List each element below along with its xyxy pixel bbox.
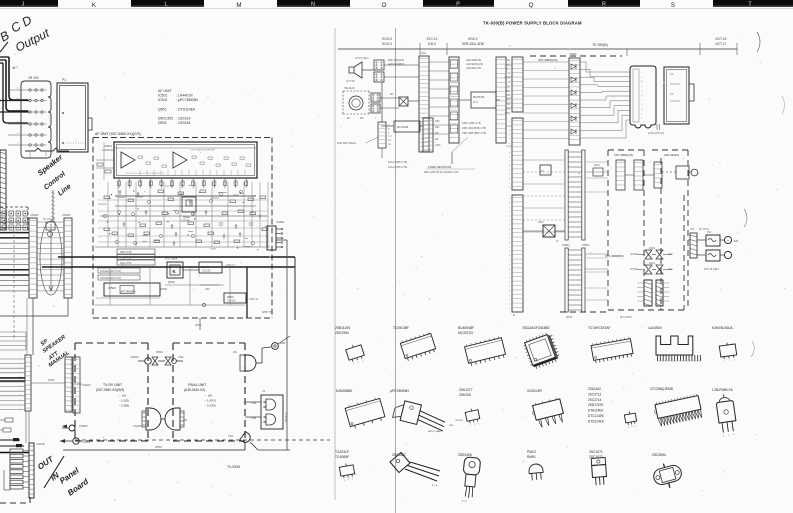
svg-text:W508: W508 [195, 324, 202, 327]
svg-text:C-2SC DATA CONVERTER: C-2SC DATA CONVERTER [190, 149, 215, 152]
svg-text:KRK-4DB (B55 4.75): KRK-4DB (B55 4.75) [462, 131, 486, 135]
svg-text:x: x [19, 408, 20, 410]
svg-text:TK-930(B) POWER SUPPLY BLOCK: TK-930(B) POWER SUPPLY BLOCK DIAGRAM [483, 21, 582, 26]
svg-text:1SS184: 1SS184 [181, 220, 190, 223]
svg-text:D604: D604 [538, 222, 544, 224]
svg-text:CN204: CN204 [133, 424, 142, 428]
svg-text:(A.B.C)(7S 1)A: (A.B.C)(7S 1)A [648, 132, 664, 135]
svg-text:CN608: CN608 [569, 53, 577, 56]
svg-text:KCH-5: KCH-5 [382, 37, 392, 41]
svg-text:x: x [19, 385, 20, 387]
svg-text:D503: D503 [158, 121, 166, 125]
svg-text:AF UNIT: AF UNIT [158, 89, 172, 93]
svg-text:CN4: CN4 [251, 416, 257, 420]
svg-text:FIXED RESISTOR: FIXED RESISTOR [428, 165, 451, 169]
svg-text:W502: W502 [48, 379, 55, 382]
svg-text:1SS193: 1SS193 [202, 270, 211, 273]
svg-text:CN202: CN202 [82, 383, 91, 387]
svg-text:x: x [19, 404, 20, 406]
svg-text:KRK-2 (B5 4.75): KRK-2 (B5 4.75) [462, 121, 481, 125]
svg-text:27C256QJEMD: 27C256QJEMD [650, 387, 674, 391]
svg-text:ALW SPK 100µA: ALW SPK 100µA [337, 142, 356, 145]
svg-text:MI2: MI2 [435, 132, 440, 135]
svg-text:TK-930M: TK-930M [227, 465, 240, 469]
svg-text:µPC78M08H: µPC78M08H [120, 290, 135, 294]
svg-text:RM91: RM91 [527, 455, 536, 459]
svg-text:(4.7): (4.7) [473, 101, 478, 104]
svg-text:JR 402: JR 402 [28, 76, 39, 80]
svg-text:NJM4556E: NJM4556E [336, 389, 353, 393]
svg-text:2SC2954: 2SC2954 [335, 331, 349, 335]
svg-text:DC CHJV: DC CHJV [699, 229, 709, 231]
svg-text:W504: W504 [156, 350, 164, 354]
svg-text:CN108: CN108 [36, 442, 45, 446]
svg-text:x: x [19, 367, 20, 369]
svg-text:CN304: CN304 [630, 269, 638, 271]
svg-text:Q502: Q502 [183, 215, 190, 219]
svg-text:B C E: B C E [432, 485, 438, 487]
svg-text:LA4491N: LA4491N [648, 326, 662, 330]
svg-text:W507 TK: W507 TK [262, 311, 272, 314]
svg-text:x: x [19, 390, 20, 392]
svg-text:X57-3960(A/3): X57-3960(A/3) [538, 58, 558, 62]
svg-text:x: x [19, 371, 20, 373]
svg-text:→ (A): → (A) [118, 394, 126, 398]
svg-text:(B.C) 8PIN: (B.C) 8PIN [620, 316, 632, 319]
svg-text:2SD1406: 2SD1406 [458, 453, 472, 457]
svg-text:TX-RX UNIT: TX-RX UNIT [103, 383, 122, 387]
svg-text:DS: DS [670, 73, 674, 76]
svg-text:KCT-17: KCT-17 [716, 42, 727, 46]
svg-text:TC4S69F: TC4S69F [335, 455, 349, 459]
svg-text:W503: W503 [155, 445, 162, 449]
svg-text:2SC2694: 2SC2694 [652, 453, 666, 457]
svg-text:KRK-2: KRK-2 [468, 37, 478, 41]
svg-text:KRK-3D4,-4DB: KRK-3D4,-4DB [462, 42, 484, 46]
svg-text:CN3: CN3 [251, 401, 257, 405]
svg-text:TC4S11F: TC4S11F [335, 450, 349, 454]
svg-text:IC502: IC502 [108, 286, 116, 290]
svg-text:2SD1767K: 2SD1767K [588, 403, 604, 407]
svg-text:2SK208: 2SK208 [459, 393, 471, 397]
svg-text:X57-3960(C/3): X57-3960(C/3) [614, 153, 633, 157]
svg-text:→1 (PG): →1 (PG) [204, 399, 216, 403]
svg-text:J1: J1 [262, 389, 265, 393]
svg-text:PR.95.M9: PR.95.M9 [473, 96, 485, 99]
svg-text:DTA114EK: DTA114EK [588, 409, 604, 413]
svg-text:KCT-5 ONLY: KCT-5 ONLY [355, 57, 369, 60]
svg-text:A40-9110-05: A40-9110-05 [466, 66, 481, 70]
svg-text:SB: SB [507, 85, 511, 88]
svg-text:CN1: CN1 [421, 52, 427, 55]
svg-text:DS: DS [670, 93, 674, 96]
svg-text:Q501: Q501 [168, 280, 175, 284]
svg-text:2SC1971: 2SC1971 [589, 450, 603, 454]
svg-text:D502: D502 [227, 295, 234, 299]
svg-text:CN2: CN2 [178, 355, 184, 359]
svg-text:W1: W1 [233, 350, 238, 354]
svg-text:W605: W605 [566, 316, 573, 319]
svg-text:(X57-3960-XX)(B/3): (X57-3960-XX)(B/3) [96, 388, 124, 392]
svg-text:: µPC78M08H: : µPC78M08H [176, 98, 199, 102]
svg-text:P: P [456, 2, 460, 8]
svg-text:SQL 0.5V: SQL 0.5V [120, 261, 132, 265]
svg-text:: 1SS193: : 1SS193 [176, 117, 190, 121]
svg-text:E: E [513, 313, 515, 317]
svg-text:A45-3440-0: A45-3440-0 [664, 153, 679, 157]
svg-text:LA4401N: LA4401N [102, 148, 113, 152]
svg-text:EC: EC [347, 117, 351, 120]
svg-text:CN505: CN505 [79, 424, 88, 428]
svg-text:x: x [19, 358, 20, 360]
svg-text:C456 .01: C456 .01 [249, 299, 259, 301]
svg-text:KTC-15 ONLY: KTC-15 ONLY [704, 268, 720, 271]
svg-text:1SS193: 1SS193 [227, 300, 236, 303]
svg-text:: LA4401N: : LA4401N [176, 94, 193, 98]
svg-text:L78LR05B-FA: L78LR05B-FA [712, 388, 734, 392]
svg-text:2SB1119S: 2SB1119S [335, 326, 351, 330]
svg-text:IC502: IC502 [158, 98, 167, 102]
svg-text:2SA1162: 2SA1162 [588, 387, 601, 391]
svg-text:PMC2: PMC2 [527, 450, 536, 454]
svg-text:: 1SS184: : 1SS184 [176, 121, 190, 125]
svg-text:DTC114EK: DTC114EK [588, 414, 605, 418]
svg-text:R92-1206-05 (4.7Ω/2W) L=60: R92-1206-05 (4.7Ω/2W) L=60 [424, 170, 459, 174]
svg-text:C454 4.7: C454 4.7 [226, 265, 236, 267]
svg-text:KCT-12: KCT-12 [427, 37, 438, 41]
svg-text:1SS193 (SW 5.2V): 1SS193 (SW 5.2V) [100, 270, 121, 273]
svg-text:L: L [165, 2, 168, 8]
svg-text:A40-9100(A/3): A40-9100(A/3) [466, 62, 483, 66]
svg-text:KB1: KB1 [435, 126, 440, 129]
svg-text:CN302: CN302 [74, 383, 82, 386]
svg-text:R: R [602, 2, 606, 8]
svg-text:2V: 2V [556, 241, 559, 243]
svg-text:KCT-15: KCT-15 [716, 37, 727, 41]
svg-text:SB: SB [435, 138, 439, 141]
svg-text:BAT: BAT [734, 240, 739, 243]
svg-text:→2 (B5): →2 (B5) [118, 404, 129, 408]
svg-text:KRK-5(B)(A/3): KRK-5(B)(A/3) [388, 59, 404, 62]
svg-text:Q501: Q501 [158, 107, 167, 111]
svg-text:A40-9090-00: A40-9090-00 [466, 58, 482, 62]
svg-text:x: x [19, 399, 20, 401]
svg-text:C5A: C5A [690, 228, 695, 231]
svg-text:CN203: CN203 [130, 355, 139, 359]
svg-text:KRK-3D4 (B3B 4.75): KRK-3D4 (B3B 4.75) [462, 126, 486, 130]
svg-text:DTD114EK: DTD114EK [588, 419, 605, 423]
svg-text:NJM78L08UA: NJM78L08UA [712, 326, 733, 330]
svg-text:A,B,C: A,B,C [428, 42, 437, 46]
svg-text:2SC2714: 2SC2714 [588, 398, 602, 402]
svg-text:VOL 4.5V: VOL 4.5V [120, 256, 132, 260]
svg-text:X54-3L/D: X54-3L/D [344, 87, 355, 90]
svg-text:CN502: CN502 [276, 220, 285, 224]
svg-text:→ (A): → (A) [204, 394, 212, 398]
svg-text:CN602: CN602 [62, 213, 71, 217]
svg-text:FINAL UNIT: FINAL UNIT [188, 383, 206, 387]
svg-text:OUTPUT: OUTPUT [455, 420, 464, 422]
svg-text:→1 (B2): →1 (B2) [118, 399, 129, 403]
svg-text:TC74HC573AF: TC74HC573AF [588, 326, 611, 330]
svg-text:AF VOLUM: AF VOLUM [43, 218, 55, 221]
svg-text:5M: 5M [507, 99, 510, 102]
svg-text:P1: P1 [62, 78, 66, 82]
svg-text:BU4094BF: BU4094BF [458, 326, 474, 330]
svg-text:D601: D601 [594, 164, 600, 167]
svg-text:TC4913BF: TC4913BF [393, 326, 409, 330]
svg-text:KB2: KB2 [435, 120, 440, 123]
svg-text:D501,502: D501,502 [158, 117, 173, 121]
svg-text:2SK1077: 2SK1077 [459, 388, 473, 392]
svg-text:CN303: CN303 [630, 254, 638, 256]
svg-text:+: + [727, 239, 729, 243]
svg-text:PTT: PTT [388, 136, 393, 138]
svg-text:CN601: CN601 [30, 213, 39, 217]
svg-text:GND: GND [449, 425, 454, 427]
svg-text:SP: SP [507, 59, 511, 62]
svg-text:J: J [22, 2, 25, 8]
svg-text:DTD 114EK: DTD 114EK [165, 258, 178, 261]
svg-text:µPC78M08H: µPC78M08H [390, 389, 410, 393]
svg-text:CN1: CN1 [228, 434, 234, 438]
svg-text:MC-46/48: MC-46/48 [397, 126, 409, 129]
svg-text:INPUT (CASE): INPUT (CASE) [428, 430, 442, 433]
svg-text:TX 8.2dB: TX 8.2dB [284, 412, 287, 422]
svg-text:1.0M 0.22 47K 10K 4.7K 10: 1.0M 0.22 47K 10K 4.7K 100 2.2K 33K 470 … [125, 173, 165, 175]
svg-text:TK-930(B): TK-930(B) [592, 43, 608, 47]
svg-text:ANT SP: ANT SP [346, 80, 355, 83]
svg-text:MC3371D: MC3371D [458, 331, 473, 335]
svg-text:SPK 0.3V: SPK 0.3V [120, 250, 132, 254]
svg-text:GND: GND [435, 144, 441, 147]
svg-text:STB: STB [505, 94, 510, 97]
svg-text:KCH-4: KCH-4 [382, 42, 392, 46]
svg-text:→2 (DG): →2 (DG) [204, 404, 216, 408]
svg-text:KCH-5 (B5 4.75): KCH-5 (B5 4.75) [388, 160, 407, 164]
svg-text:1SS193 (SW 4.2V): 1SS193 (SW 4.2V) [100, 277, 121, 280]
svg-text:CN604: CN604 [562, 244, 570, 247]
svg-text:5C: 5C [507, 103, 510, 106]
svg-text:A40-5100(B/3): A40-5100(B/3) [388, 63, 404, 66]
svg-text:x: x [19, 362, 20, 364]
svg-text:+BV: +BV [205, 288, 210, 291]
svg-text:GND: GND [505, 112, 511, 115]
svg-text:ME: ME [506, 90, 510, 93]
svg-text:CN205: CN205 [82, 440, 91, 444]
svg-text:MC: MC [360, 117, 364, 120]
svg-text:: DTD114EK: : DTD114EK [176, 107, 196, 111]
svg-text:2SC2712: 2SC2712 [588, 392, 602, 396]
svg-text:K: K [173, 269, 176, 274]
svg-text:ANT: ANT [280, 341, 286, 345]
svg-text:x: x [19, 394, 20, 396]
svg-text:N: N [311, 2, 315, 8]
svg-text:(A45-3440-XX): (A45-3440-XX) [184, 388, 205, 392]
svg-text:IC501: IC501 [104, 144, 112, 148]
svg-text:MC: MC [388, 140, 392, 142]
svg-text:X24C04PI: X24C04PI [527, 389, 542, 393]
svg-text:F5A: F5A [707, 231, 712, 234]
svg-text:KCH-4 (B5 4.75): KCH-4 (B5 4.75) [388, 165, 407, 169]
svg-text:76312AGF3343BE: 76312AGF3343BE [522, 326, 550, 330]
svg-text:IC501: IC501 [158, 94, 167, 98]
svg-text:D501: D501 [202, 265, 209, 269]
